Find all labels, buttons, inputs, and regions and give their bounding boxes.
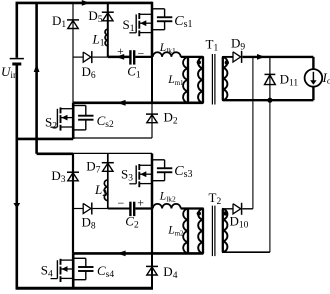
svg-text:−: − (118, 196, 125, 210)
svg-text:+: + (137, 195, 144, 209)
svg-text:+: + (117, 44, 124, 58)
svg-text:−: − (138, 47, 145, 61)
